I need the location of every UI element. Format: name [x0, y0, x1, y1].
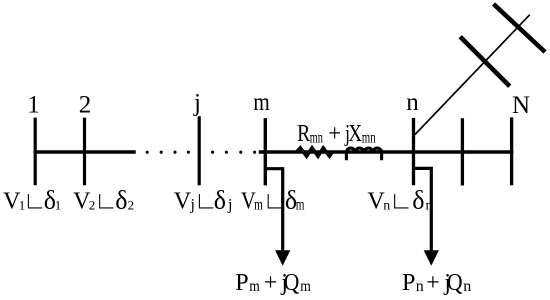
svg-text:+: +: [328, 121, 341, 148]
svg-text:n: n: [463, 278, 471, 295]
bus n: [412, 118, 415, 185]
load arrowhead m: [275, 250, 290, 265]
svg-text:2: 2: [128, 198, 135, 213]
svg-text:m: m: [296, 196, 305, 213]
svg-text:n: n: [416, 278, 424, 295]
feeder line right segment (bus m to bus N): [259, 150, 514, 153]
load tap wire at bus m: [265, 169, 282, 251]
diagonal continuation line from bus n: [415, 15, 530, 135]
svg-text:m: m: [254, 196, 263, 213]
svg-text:∟: ∟: [263, 189, 287, 215]
inductor Xmn coil: [346, 148, 381, 160]
svg-text:Q: Q: [447, 269, 463, 295]
bus N: [510, 117, 513, 185]
dotted continuation left of bus j: [146, 151, 190, 154]
feeder line left segment (bus 1 to dotted break): [34, 150, 136, 153]
svg-text:mn: mn: [362, 128, 376, 146]
svg-text:δ: δ: [214, 186, 226, 215]
svg-text:j: j: [193, 90, 201, 117]
svg-text:mn: mn: [310, 128, 323, 146]
svg-text:P: P: [235, 270, 248, 296]
load tap wire at bus n: [414, 168, 432, 251]
bus 2: [83, 118, 86, 186]
svg-text:1: 1: [27, 92, 40, 119]
dotted continuation right of bus j: [211, 151, 256, 154]
break tick 2 on diagonal: [494, 4, 546, 52]
svg-text:+: +: [264, 270, 278, 296]
svg-text:m: m: [253, 89, 270, 117]
svg-text:2: 2: [79, 92, 92, 119]
bus 1: [34, 118, 37, 186]
svg-text:δ: δ: [115, 186, 127, 215]
svg-text:∟: ∟: [389, 189, 413, 215]
svg-text:m: m: [249, 278, 260, 295]
svg-text:1: 1: [55, 198, 62, 213]
svg-text:P: P: [402, 270, 415, 296]
bus j: [198, 116, 201, 185]
svg-text:V: V: [174, 189, 192, 215]
svg-text:X: X: [348, 120, 362, 147]
load arrowhead n: [424, 250, 439, 265]
svg-text:N: N: [512, 92, 530, 119]
svg-text:+: +: [426, 270, 440, 296]
svg-text:Q: Q: [284, 269, 300, 295]
svg-text:δ: δ: [412, 186, 424, 215]
svg-text:R: R: [297, 119, 310, 146]
svg-text:n: n: [406, 89, 419, 116]
svg-text:n: n: [426, 199, 433, 214]
svg-text:m: m: [300, 278, 311, 295]
bus m: [264, 118, 267, 185]
resistor Rmn zigzag: [297, 148, 333, 156]
break tick 1 on diagonal: [460, 37, 510, 86]
unlabeled intermediate bus: [461, 118, 464, 185]
svg-text:j: j: [227, 197, 232, 214]
